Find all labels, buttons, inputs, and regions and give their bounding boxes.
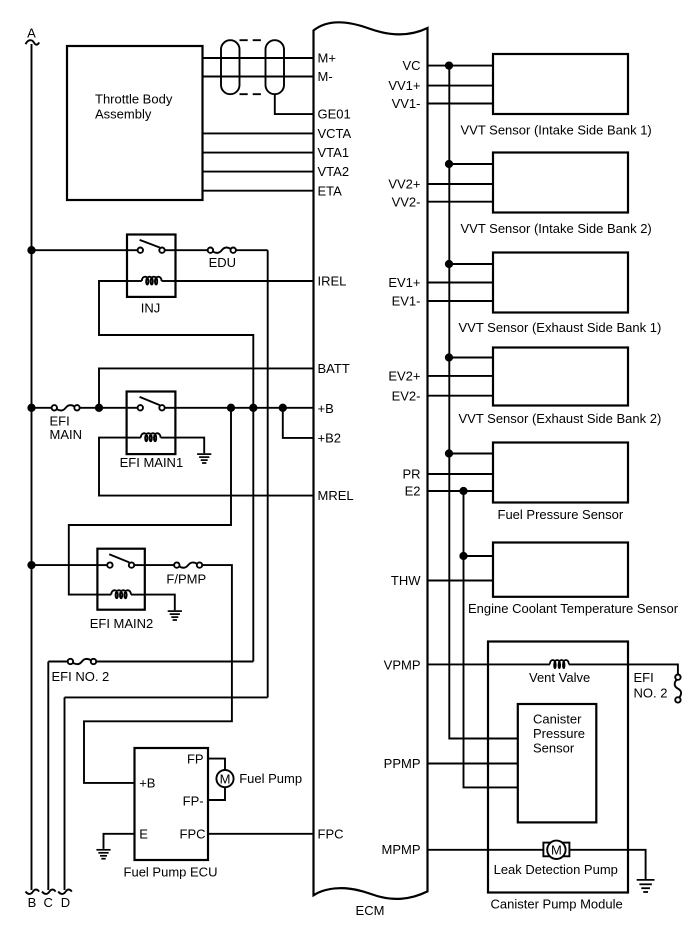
wire EDU to EDU rail	[236, 249, 268, 251]
svg-text:Engine Coolant Temperature Sen: Engine Coolant Temperature Sensor	[468, 601, 679, 616]
svg-text:INJ: INJ	[141, 301, 161, 316]
svg-text:VCTA: VCTA	[318, 126, 352, 141]
shield dashed link bottom	[240, 93, 266, 95]
svg-text:EDU: EDU	[209, 255, 236, 270]
svg-text:MPMP: MPMP	[382, 842, 421, 857]
node junction +B/EFI NO.2 feed	[250, 405, 256, 411]
svg-text:Vent Valve: Vent Valve	[529, 670, 590, 685]
node junction A/INJ	[28, 247, 34, 253]
engine coolant temperature sensor box	[468, 543, 679, 617]
wire E2 bus to coolant sensor	[464, 555, 494, 557]
ground fuel pump ECU	[96, 850, 110, 859]
node junction A/EFI MAIN2	[28, 562, 34, 568]
svg-text:EV2-: EV2-	[392, 388, 421, 403]
svg-text:VVT Sensor (Intake Side Bank 1: VVT Sensor (Intake Side Bank 1)	[461, 123, 652, 138]
svg-text:D: D	[61, 895, 70, 910]
node junction E2 bus coolant	[460, 553, 466, 559]
shield dashed link top	[240, 39, 266, 41]
svg-text:+B: +B	[318, 401, 334, 416]
svg-text:E: E	[139, 826, 148, 841]
wire leak pump to ground	[569, 850, 645, 879]
wire EFI MAIN1 coil to ground	[175, 438, 204, 454]
fuse EDU	[208, 248, 236, 271]
motor fuel pump	[216, 770, 302, 787]
wire VC bus to fuel pressure sensor	[449, 453, 493, 455]
svg-text:VPMP: VPMP	[384, 658, 421, 673]
wire VC bus to intake bank2	[449, 163, 493, 165]
svg-text:BATT: BATT	[318, 361, 350, 376]
svg-text:Canister Pump Module: Canister Pump Module	[491, 897, 623, 912]
svg-text:Assembly: Assembly	[95, 107, 152, 122]
svg-text:ECM: ECM	[356, 903, 385, 918]
svg-text:Canister: Canister	[533, 712, 582, 727]
svg-text:ETA: ETA	[318, 183, 343, 198]
node junction +B/+B2	[280, 405, 286, 411]
svg-text:NO. 2: NO. 2	[634, 686, 668, 701]
wire PR	[428, 473, 494, 475]
svg-text:+B: +B	[139, 776, 155, 791]
wire ETA	[203, 190, 314, 192]
svg-text:M-: M-	[318, 69, 333, 84]
wire VTA1	[203, 152, 314, 154]
svg-text:Fuel Pump ECU: Fuel Pump ECU	[124, 865, 218, 880]
wire EV1-	[428, 300, 494, 302]
wire EV2-	[428, 395, 494, 397]
svg-text:MREL: MREL	[318, 488, 354, 503]
wire PPMP	[428, 763, 518, 765]
wire VC bus to exhaust bank2	[449, 357, 493, 359]
wire INJ switch to EDU fuse	[176, 249, 208, 251]
wire INJ coil feed	[99, 281, 253, 408]
wire VC bus vertical	[449, 66, 518, 739]
op ECM box	[314, 22, 428, 918]
ground EFI MAIN1	[197, 454, 211, 463]
node B label	[28, 895, 37, 910]
svg-text:THW: THW	[391, 573, 421, 588]
svg-text:M: M	[220, 771, 231, 786]
wire EFI MAIN2 feed	[69, 408, 231, 595]
wire VC bus to exhaust bank1	[449, 263, 493, 265]
svg-text:EFI NO. 2: EFI NO. 2	[52, 669, 110, 684]
wire EV2+	[428, 375, 494, 377]
svg-text:Fuel Pump: Fuel Pump	[239, 771, 302, 786]
svg-text:VC: VC	[402, 58, 420, 73]
node C label	[44, 895, 53, 910]
wire shield to GE01	[275, 94, 313, 114]
svg-text:A: A	[27, 26, 36, 41]
svg-text:EV1-: EV1-	[392, 294, 421, 309]
svg-text:VV1-: VV1-	[392, 96, 421, 111]
VVT sensor exhaust bank2 box	[459, 348, 662, 427]
wire EDU rail bottom horizontal	[65, 696, 268, 698]
svg-text:Pressure: Pressure	[533, 726, 585, 741]
relay INJ	[127, 235, 176, 316]
svg-text:Leak Detection Pump: Leak Detection Pump	[494, 862, 618, 877]
node junction VC bus bank2	[446, 161, 452, 167]
fuse EFI NO.2 right	[634, 670, 682, 703]
ground EFI MAIN2	[168, 611, 182, 620]
VVT sensor intake bank1 box	[461, 54, 652, 138]
wire E2	[428, 490, 494, 492]
canister pump module box	[488, 642, 628, 912]
ECM pin labels right	[382, 58, 422, 857]
svg-text:VV2-: VV2-	[392, 194, 421, 209]
wire D rail	[64, 697, 66, 890]
wire A rail to EFI MAIN2 switch	[32, 564, 98, 566]
Throttle Body Assembly box	[67, 46, 203, 200]
wire A rail to EFI MAIN fuse	[32, 407, 52, 409]
inductor vent valve	[529, 660, 590, 685]
wire EDU rail vertical	[267, 250, 269, 697]
svg-text:Throttle Body: Throttle Body	[95, 92, 173, 107]
wire VC	[428, 65, 494, 67]
svg-text:F/PMP: F/PMP	[166, 572, 206, 587]
svg-text:M: M	[551, 842, 562, 857]
svg-text:FPC: FPC	[318, 826, 344, 841]
Fuel Pump ECU box	[124, 748, 218, 880]
wire +B2	[283, 408, 313, 438]
svg-text:FPC: FPC	[180, 826, 206, 841]
svg-text:EFI MAIN2: EFI MAIN2	[90, 616, 154, 631]
svg-text:VTA2: VTA2	[318, 164, 350, 179]
motor leak detection pump	[494, 841, 618, 877]
wire B rail break squiggle	[26, 890, 40, 894]
svg-text:FP-: FP-	[183, 794, 204, 809]
wire EFI NO.2 fuse to C rail	[48, 661, 67, 663]
svg-text:B: B	[28, 895, 37, 910]
ECM pin labels left	[318, 51, 354, 842]
wire FP- to fuel pump motor	[208, 787, 225, 800]
svg-text:C: C	[44, 895, 53, 910]
node junction E2 bus	[460, 488, 466, 494]
svg-text:EFI MAIN1: EFI MAIN1	[120, 455, 184, 470]
shield stadium right	[266, 40, 285, 94]
svg-text:M+: M+	[318, 51, 336, 66]
wire EFI MAIN fuse to relay	[80, 407, 127, 409]
svg-text:IREL: IREL	[318, 274, 347, 289]
fuel pressure sensor box	[493, 443, 628, 523]
svg-text:GE01: GE01	[318, 107, 351, 122]
svg-text:+B2: +B2	[318, 430, 342, 445]
svg-text:PPMP: PPMP	[384, 756, 421, 771]
node junction VC bus exhaust bank1	[446, 261, 452, 267]
wire THW	[428, 580, 494, 582]
wire EFI NO.2 horizontal	[96, 661, 253, 663]
wire MPMP	[428, 849, 544, 851]
wire VV2+	[428, 183, 494, 185]
svg-text:MAIN: MAIN	[50, 427, 83, 442]
svg-text:EFI: EFI	[634, 670, 654, 685]
ground leak detection pump	[637, 880, 655, 892]
wire C rail	[47, 662, 49, 891]
svg-text:PR: PR	[402, 467, 420, 482]
wire E2 bus vertical	[464, 491, 518, 787]
wire VTA2	[203, 171, 314, 173]
svg-text:EV1+: EV1+	[388, 275, 420, 290]
fuse F/PMP	[166, 562, 206, 586]
svg-text:VVT Sensor (Exhaust Side Bank: VVT Sensor (Exhaust Side Bank 1)	[459, 320, 662, 335]
wire EFI NO.2 feed rail	[252, 408, 254, 662]
wire VV2-	[428, 201, 494, 203]
wire A/B rail	[31, 44, 33, 890]
wire VV1-	[428, 103, 494, 105]
svg-text:FP: FP	[187, 752, 204, 767]
node junction VC bus fuel pressure	[446, 450, 452, 456]
wire A rail to INJ switch	[32, 249, 128, 251]
wire EFI MAIN2 switch to F/PMP fuse	[145, 564, 174, 566]
wire VV1+	[428, 85, 494, 87]
wire FP to fuel pump motor	[208, 759, 225, 770]
wire EFI MAIN2 coil to ground	[145, 595, 175, 611]
node junction VC bus exhaust bank2	[446, 354, 452, 360]
wire C rail break squiggle	[42, 890, 56, 894]
wire VPMP	[428, 663, 550, 665]
wire vent valve to EFI NO.2 fuse	[569, 664, 678, 674]
node A break squiggle	[26, 40, 40, 44]
svg-text:VVT Sensor (Exhaust Side Bank: VVT Sensor (Exhaust Side Bank 2)	[459, 411, 662, 426]
svg-text:VV2+: VV2+	[388, 177, 420, 192]
fuse EFI NO.2	[52, 659, 110, 684]
node junction +B/EFI MAIN2 feed	[228, 405, 234, 411]
node A label	[27, 26, 36, 41]
wire E to ground	[104, 834, 135, 849]
canister pressure sensor box	[518, 704, 597, 822]
node D label	[61, 895, 70, 910]
node junction A/EFI MAIN	[28, 405, 34, 411]
relay EFI MAIN2	[90, 549, 154, 631]
wire F/PMP to fuel pump ECU	[84, 565, 232, 783]
VVT sensor exhaust bank1 box	[459, 253, 662, 336]
svg-text:E2: E2	[405, 484, 421, 499]
svg-text:VVT Sensor (Intake Side Bank 2: VVT Sensor (Intake Side Bank 2)	[461, 221, 652, 236]
VVT sensor intake bank2 box	[461, 153, 652, 237]
wire M+	[203, 57, 314, 59]
wire VCTA	[203, 132, 314, 134]
svg-text:EV2+: EV2+	[388, 369, 420, 384]
wire BATT	[99, 368, 313, 407]
relay EFI MAIN1	[120, 392, 184, 470]
node junction VC bus	[446, 62, 452, 68]
wire +B	[175, 407, 313, 409]
svg-text:Fuel Pressure Sensor: Fuel Pressure Sensor	[498, 507, 624, 522]
fuse EFI MAIN	[50, 405, 83, 442]
svg-text:VTA1: VTA1	[318, 145, 350, 160]
svg-text:VV1+: VV1+	[388, 78, 420, 93]
svg-text:Sensor: Sensor	[533, 741, 575, 756]
shield stadium left	[221, 40, 240, 94]
wire EV1+	[428, 282, 494, 284]
wire D rail break squiggle	[58, 890, 72, 894]
wire M-	[203, 76, 314, 78]
wire MREL with EFI MAIN1 coil	[99, 438, 313, 496]
wire FPC	[208, 833, 313, 835]
node junction BATT/+B	[96, 405, 102, 411]
wire IREL	[176, 280, 314, 282]
